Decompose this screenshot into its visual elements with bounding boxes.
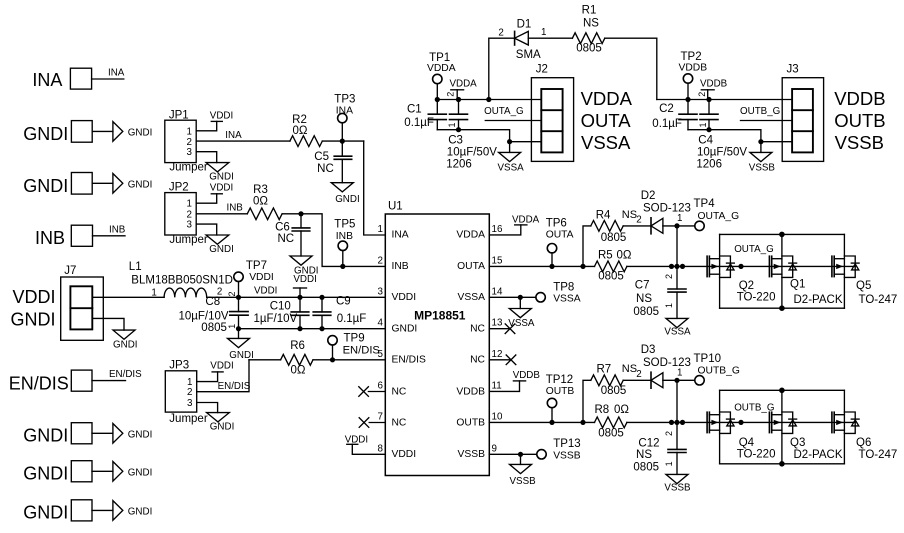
- svg-text:0Ω: 0Ω: [614, 404, 629, 416]
- svg-text:Q4: Q4: [739, 437, 755, 449]
- svg-text:3: 3: [187, 220, 193, 231]
- wire to arrow: [92, 130, 113, 132]
- wire GNDI rail to U1 pin4: [239, 328, 386, 330]
- svg-text:2: 2: [446, 92, 456, 97]
- wire R2 to INA node: [322, 140, 363, 142]
- svg-text:INB: INB: [227, 203, 244, 214]
- input port INB: [35, 225, 93, 248]
- wire TP9 down to rail: [332, 345, 334, 360]
- connector J7: [11, 265, 104, 340]
- wire D3 node down to OUTB_G line: [676, 380, 678, 422]
- node VSSB (J3): [758, 139, 763, 144]
- wire JP3 pin3 to ground: [197, 403, 218, 413]
- svg-text:OUTA: OUTA: [546, 230, 574, 241]
- node VDDI at TP7/C8: [236, 295, 241, 300]
- wire TP2 down to VDDB rail: [687, 83, 689, 99]
- svg-text:GNDI: GNDI: [128, 430, 153, 441]
- wire TP3 to junction: [341, 123, 343, 141]
- svg-text:0Ω: 0Ω: [291, 365, 306, 377]
- svg-text:VSSB: VSSB: [835, 132, 884, 153]
- svg-text:VSSA: VSSA: [664, 326, 691, 337]
- ground arrow GNDI (row 2): [113, 174, 123, 194]
- node Q3 gate: [738, 420, 743, 425]
- svg-text:L1: L1: [129, 261, 142, 273]
- jumper JP2: [165, 182, 208, 246]
- wire D2 node down to OUTA_G line: [676, 226, 678, 267]
- wire TP5 down to INB wire: [342, 251, 344, 267]
- svg-text:C1: C1: [407, 104, 422, 116]
- svg-text:TO-247: TO-247: [859, 294, 898, 306]
- svg-text:6: 6: [378, 380, 384, 391]
- svg-text:Q2: Q2: [739, 280, 754, 292]
- wire EN/DIS stub: [92, 380, 126, 382]
- svg-text:VDDI: VDDI: [293, 274, 316, 285]
- pin 3 VDDI: [378, 286, 417, 303]
- test point TP12: [546, 374, 575, 408]
- node TP12 junction: [549, 420, 554, 425]
- wire JP2 pin1 to VDDI: [196, 194, 217, 203]
- svg-text:1: 1: [227, 324, 237, 329]
- node Q1 drain: [779, 232, 785, 238]
- power VDDI (JP1): [210, 110, 233, 121]
- svg-text:D2-PACK: D2-PACK: [794, 294, 843, 306]
- ground GNDI (C5): [331, 183, 359, 205]
- resistor R1: [572, 5, 604, 55]
- wire R6 left: [249, 359, 281, 361]
- svg-text:OUTA_G: OUTA_G: [698, 211, 740, 222]
- svg-text:GNDI: GNDI: [210, 421, 235, 432]
- svg-text:Jumper: Jumper: [169, 234, 208, 246]
- wire TP1 down to VDDA rail: [436, 84, 438, 100]
- wire OUTB_G to transistor gates: [627, 421, 855, 423]
- wire INB from JP2 pin2 to R3: [196, 213, 247, 215]
- svg-text:VSSB: VSSB: [664, 483, 691, 494]
- svg-text:SOD-123: SOD-123: [643, 357, 691, 369]
- svg-text:1: 1: [187, 126, 192, 137]
- capacitor C6: [275, 214, 310, 256]
- svg-text:10µF/50V: 10µF/50V: [447, 147, 497, 159]
- pin 12 NC: [470, 349, 516, 366]
- ground GNDI (C8): [228, 338, 254, 360]
- pin 9 VSSB: [458, 443, 497, 460]
- svg-text:NS: NS: [636, 293, 652, 305]
- svg-text:INB: INB: [109, 224, 126, 235]
- svg-text:EN/DIS: EN/DIS: [109, 369, 142, 380]
- power VDDI (JP3): [210, 361, 233, 372]
- wire JP1 pin3 to ground: [196, 152, 217, 163]
- svg-text:TP3: TP3: [334, 94, 355, 106]
- wire pin14 node to ground: [519, 297, 521, 308]
- wire drain rail (bottom group): [720, 389, 845, 391]
- wire C2/C4 bottoms to VSSB node: [688, 130, 761, 142]
- pin 7 NC: [359, 411, 407, 428]
- power VDDA (pin 16): [512, 215, 540, 226]
- wire pin9 to TP13: [489, 453, 537, 455]
- wire VSSB node to ground: [760, 142, 762, 153]
- svg-text:MP18851: MP18851: [414, 308, 466, 322]
- node C12 branch cluster: [669, 420, 685, 425]
- power VDDI (pin 8): [345, 434, 368, 445]
- svg-text:SOD-123: SOD-123: [643, 203, 691, 215]
- svg-text:VDDB: VDDB: [700, 79, 728, 90]
- node TP5 junction: [340, 264, 345, 269]
- pin 8 VDDI: [378, 443, 417, 460]
- svg-text:OUTA: OUTA: [457, 261, 485, 272]
- pin 4 GNDI: [378, 318, 418, 335]
- svg-text:INA: INA: [392, 230, 409, 241]
- wire INA from JP1 pin2 to R2: [196, 140, 290, 142]
- test point TP10: [694, 353, 740, 385]
- svg-text:OUTB_G: OUTB_G: [698, 366, 740, 377]
- svg-text:R5: R5: [598, 249, 613, 261]
- pin 5 EN/DIS: [378, 349, 426, 366]
- svg-text:GNDI: GNDI: [128, 180, 153, 191]
- wire VDDA rail up to D1: [489, 38, 515, 99]
- node D3/TP10: [674, 378, 679, 383]
- svg-text:SMA: SMA: [516, 49, 541, 61]
- svg-text:10µF/50V: 10µF/50V: [697, 147, 747, 159]
- svg-text:VSSB: VSSB: [510, 476, 537, 487]
- ground VSSB (J3): [749, 152, 776, 173]
- wire to arrow: [92, 509, 113, 511]
- wire INB stub: [93, 235, 126, 237]
- diode D2 SOD-123: [636, 190, 691, 234]
- svg-text:GNDI: GNDI: [209, 171, 234, 182]
- test point TP6: [546, 218, 574, 253]
- input port INA: [32, 68, 91, 90]
- svg-text:VDDA: VDDA: [427, 63, 456, 74]
- wire pin16 to VDDA power: [489, 225, 521, 235]
- svg-text:NS: NS: [583, 18, 599, 30]
- svg-text:NC: NC: [317, 163, 334, 175]
- svg-text:TP7: TP7: [246, 260, 267, 272]
- wire JP1 pin1 to VDDI: [196, 121, 217, 130]
- svg-text:0805: 0805: [601, 232, 627, 244]
- svg-text:EN/DIS: EN/DIS: [343, 345, 380, 357]
- wire J7 pin2 to ground: [92, 318, 124, 330]
- svg-text:OUTA_G: OUTA_G: [484, 106, 524, 117]
- wire JP3 pin1 to VDDI: [197, 372, 218, 382]
- input port GNDI (row 4): [23, 461, 92, 484]
- wire INA stub: [92, 78, 124, 80]
- node C7 branch cluster: [669, 264, 685, 269]
- ground VSSB (C12): [664, 474, 691, 493]
- svg-text:TP12: TP12: [546, 374, 574, 386]
- transistor Q2: [707, 234, 775, 308]
- svg-text:GNDI: GNDI: [23, 176, 68, 196]
- diode D1: [498, 18, 546, 61]
- wire OUTA_G stub to J2 pin2: [485, 120, 541, 122]
- capacitor C10: [254, 297, 309, 328]
- svg-text:TP9: TP9: [344, 333, 365, 345]
- wire L1 to U1 pin3 (VDDI rail): [207, 296, 386, 298]
- wire R4 to D2: [623, 225, 651, 227]
- svg-text:NS: NS: [622, 209, 637, 221]
- svg-text:VSSA: VSSA: [458, 292, 486, 303]
- wire TP6 down to OUTA: [551, 253, 553, 267]
- svg-text:0805: 0805: [601, 385, 627, 397]
- svg-text:NC: NC: [392, 417, 407, 428]
- wire TP7 down to rail: [238, 282, 240, 298]
- svg-text:TP5: TP5: [334, 219, 355, 231]
- wire D2 to TP4: [663, 225, 695, 227]
- input port EN/DIS: [9, 370, 92, 393]
- svg-text:1: 1: [447, 122, 457, 127]
- svg-text:VDDB: VDDB: [456, 386, 485, 397]
- svg-text:J7: J7: [64, 265, 76, 277]
- svg-text:VDDA: VDDA: [450, 79, 478, 90]
- svg-text:1: 1: [664, 461, 674, 466]
- wire C8 to ground: [238, 329, 240, 339]
- svg-text:1: 1: [541, 27, 546, 38]
- input port GNDI (row 2): [23, 173, 92, 196]
- wire D3 to TP10: [663, 379, 695, 381]
- ground GNDI (C6): [290, 256, 319, 277]
- wire to arrow: [92, 470, 113, 472]
- svg-text:TO-220: TO-220: [737, 291, 776, 303]
- wire VSSB node to J3 pin3: [761, 141, 792, 143]
- svg-text:INB: INB: [35, 228, 65, 248]
- pin 2 INB: [378, 255, 409, 272]
- svg-text:INB: INB: [392, 261, 409, 272]
- svg-text:1: 1: [677, 367, 682, 378]
- svg-text:NC: NC: [277, 233, 294, 245]
- capacitor C4: [696, 100, 747, 171]
- svg-text:INA: INA: [225, 130, 242, 141]
- node INB junction at R3: [298, 211, 303, 216]
- svg-text:3: 3: [378, 286, 384, 297]
- svg-text:C7: C7: [635, 280, 650, 292]
- node VSSB (pin9): [518, 452, 523, 457]
- svg-text:C6: C6: [275, 222, 290, 234]
- power VDDB (rail): [700, 79, 728, 100]
- svg-text:U1: U1: [388, 201, 403, 213]
- node VSSA (J2): [507, 139, 512, 144]
- svg-text:0805: 0805: [598, 428, 624, 440]
- svg-text:4: 4: [378, 318, 384, 329]
- svg-text:0Ω: 0Ω: [293, 125, 308, 137]
- svg-text:TP1: TP1: [429, 52, 450, 64]
- svg-text:VSSB: VSSB: [458, 449, 486, 460]
- pin 16 VDDA: [456, 224, 503, 241]
- svg-text:0Ω: 0Ω: [617, 249, 632, 261]
- svg-text:TP4: TP4: [694, 198, 716, 210]
- test point TP2: [679, 51, 708, 83]
- capacitor C3: [446, 100, 497, 171]
- svg-text:NC: NC: [470, 323, 485, 334]
- svg-text:EN/DIS: EN/DIS: [218, 381, 251, 392]
- node D2/TP4: [674, 223, 679, 228]
- svg-text:VSSA: VSSA: [581, 132, 631, 153]
- test point TP9: [328, 333, 380, 357]
- capacitor C12: [633, 422, 686, 474]
- transistor Q4: [707, 390, 775, 464]
- svg-text:0805: 0805: [633, 306, 659, 318]
- svg-text:VDDB: VDDB: [513, 370, 541, 381]
- capacitor C2: [652, 100, 697, 131]
- svg-text:NS: NS: [636, 449, 652, 461]
- svg-text:VSSB: VSSB: [749, 162, 776, 173]
- svg-text:10: 10: [492, 411, 503, 422]
- svg-text:OUTB_G: OUTB_G: [740, 106, 780, 117]
- svg-text:VSSB: VSSB: [553, 451, 581, 462]
- svg-text:VDDA: VDDA: [456, 230, 485, 241]
- svg-text:0.1µF: 0.1µF: [337, 313, 367, 325]
- svg-text:2: 2: [498, 28, 503, 39]
- input port GNDI (row 1): [23, 121, 92, 144]
- wire pin9 node to ground: [520, 454, 522, 464]
- svg-text:C5: C5: [314, 151, 329, 163]
- svg-text:EN/DIS: EN/DIS: [9, 374, 69, 394]
- svg-text:Q1: Q1: [790, 279, 805, 291]
- svg-text:R2: R2: [292, 114, 307, 126]
- svg-text:GNDI: GNDI: [11, 309, 56, 329]
- svg-text:10µF/10V: 10µF/10V: [178, 311, 228, 323]
- node D1 branch: [486, 97, 491, 102]
- node TP1/C1: [435, 97, 440, 102]
- resistor R8: [595, 404, 630, 440]
- svg-text:11: 11: [492, 380, 502, 391]
- wire R3 to INB node and down to U1 pin2: [282, 214, 385, 267]
- svg-text:INB: INB: [336, 231, 353, 242]
- pin 1 INA: [378, 224, 409, 241]
- pin 14 VSSA: [458, 286, 503, 303]
- node GNDI at C8: [236, 326, 241, 331]
- connector J2: [531, 64, 573, 162]
- svg-text:OUTA: OUTA: [581, 110, 632, 131]
- wire J7 pin1 to L1: [92, 296, 164, 298]
- ground arrow GNDI (row 1): [113, 122, 123, 142]
- svg-text:VDDI: VDDI: [345, 434, 368, 445]
- svg-text:Q6: Q6: [856, 437, 871, 449]
- svg-text:12: 12: [492, 349, 503, 360]
- wire D1 to R1: [528, 37, 572, 39]
- ground GNDI (JP1): [206, 163, 234, 183]
- svg-text:C3: C3: [448, 135, 463, 147]
- transistor Q5: [832, 234, 897, 308]
- wire INA node down to U1 pin1: [364, 141, 386, 235]
- svg-text:GNDI: GNDI: [335, 194, 360, 205]
- svg-text:VDDI: VDDI: [254, 286, 277, 297]
- test point TP3: [334, 94, 355, 123]
- svg-text:C4: C4: [698, 135, 713, 147]
- svg-text:VDDI: VDDI: [392, 292, 417, 303]
- svg-text:GNDI: GNDI: [23, 503, 68, 523]
- svg-text:0805: 0805: [576, 43, 602, 55]
- input port GNDI (row 5): [23, 500, 92, 523]
- svg-text:J3: J3: [787, 64, 799, 76]
- node C3 bottom: [456, 127, 461, 132]
- svg-text:OUTB_G: OUTB_G: [734, 403, 774, 414]
- pin 11 VDDB: [456, 380, 501, 397]
- svg-text:BLM18BB050SN1D: BLM18BB050SN1D: [131, 274, 233, 286]
- svg-text:TP2: TP2: [681, 51, 702, 63]
- svg-text:0Ω: 0Ω: [253, 196, 268, 208]
- wire pin11 to VDDB power: [489, 381, 519, 392]
- svg-text:2: 2: [697, 92, 707, 97]
- wire pin14 to TP8: [489, 296, 536, 298]
- resistor R3: [247, 184, 282, 220]
- svg-text:VDDA: VDDA: [512, 215, 540, 226]
- svg-text:GNDI: GNDI: [23, 124, 68, 144]
- svg-text:GNDI: GNDI: [23, 464, 68, 484]
- svg-text:EN/DIS: EN/DIS: [392, 355, 426, 366]
- node Q1 source: [779, 305, 785, 311]
- node TP2/C2: [685, 97, 690, 102]
- power VDDA (rail): [450, 79, 478, 100]
- svg-text:2: 2: [227, 291, 237, 296]
- resistor R5: [595, 249, 632, 282]
- svg-text:INA: INA: [108, 67, 125, 78]
- svg-text:VDDI: VDDI: [210, 110, 233, 121]
- pin 13 NC: [470, 318, 515, 335]
- svg-text:1: 1: [664, 303, 674, 308]
- svg-text:7: 7: [378, 411, 383, 422]
- svg-text:OUTA_G: OUTA_G: [734, 244, 774, 255]
- node INA junction: [340, 139, 345, 144]
- svg-text:VDDB: VDDB: [834, 88, 885, 109]
- svg-text:GNDI: GNDI: [209, 244, 234, 255]
- svg-text:GNDI: GNDI: [128, 128, 153, 139]
- svg-text:JP2: JP2: [169, 182, 189, 194]
- node Q1 gate: [738, 264, 743, 269]
- wire to arrow: [92, 182, 113, 184]
- svg-text:NS: NS: [622, 363, 637, 375]
- node VSSA (pin14): [518, 295, 523, 300]
- svg-text:2: 2: [664, 274, 674, 279]
- svg-text:GNDI: GNDI: [128, 507, 153, 518]
- svg-text:J2: J2: [536, 64, 548, 76]
- wire pin8 to VDDI power: [352, 444, 385, 454]
- svg-text:2: 2: [636, 369, 641, 380]
- wire VSSA node to J2 pin3: [510, 141, 542, 143]
- svg-text:15: 15: [492, 255, 503, 266]
- wire OUTA from pin15 to R5: [489, 265, 594, 267]
- pin 15 OUTA: [457, 255, 503, 272]
- wire OUTB from pin10 to R8: [489, 421, 594, 423]
- node R4 branch (OUTA): [580, 264, 585, 269]
- wire R7 to D3: [623, 379, 651, 381]
- wire R7 branch up: [583, 380, 591, 422]
- svg-text:TO-220: TO-220: [737, 448, 776, 460]
- wire OUTA_G to transistor gates: [627, 265, 855, 267]
- resistor R4: [591, 209, 637, 244]
- wire OUTB_G stub to J3 pin2: [741, 120, 793, 122]
- node R7 branch (OUTB): [580, 420, 585, 425]
- svg-text:VSSA: VSSA: [498, 162, 525, 173]
- power VDDI (JP2): [210, 183, 233, 194]
- svg-text:2: 2: [187, 387, 192, 398]
- svg-text:0805: 0805: [201, 322, 227, 334]
- wire VSSA node to ground: [509, 142, 511, 153]
- svg-text:R4: R4: [596, 209, 611, 221]
- svg-text:2: 2: [636, 215, 641, 226]
- svg-text:Jumper: Jumper: [169, 162, 208, 174]
- svg-text:VDDI: VDDI: [249, 272, 274, 283]
- svg-text:JP3: JP3: [169, 360, 189, 372]
- wire VDDB rail to J3 pin1: [657, 99, 792, 101]
- svg-text:0805: 0805: [633, 462, 659, 474]
- test point TP7: [234, 260, 274, 283]
- ground arrow GNDI (row 3): [113, 424, 123, 444]
- svg-text:VSSA: VSSA: [553, 294, 581, 305]
- svg-text:TP10: TP10: [694, 353, 722, 365]
- svg-text:R8: R8: [595, 404, 610, 416]
- svg-text:D1: D1: [517, 18, 532, 30]
- capacitor C5: [314, 141, 351, 183]
- test point TP8: [536, 281, 581, 304]
- svg-text:TO-247: TO-247: [859, 449, 898, 461]
